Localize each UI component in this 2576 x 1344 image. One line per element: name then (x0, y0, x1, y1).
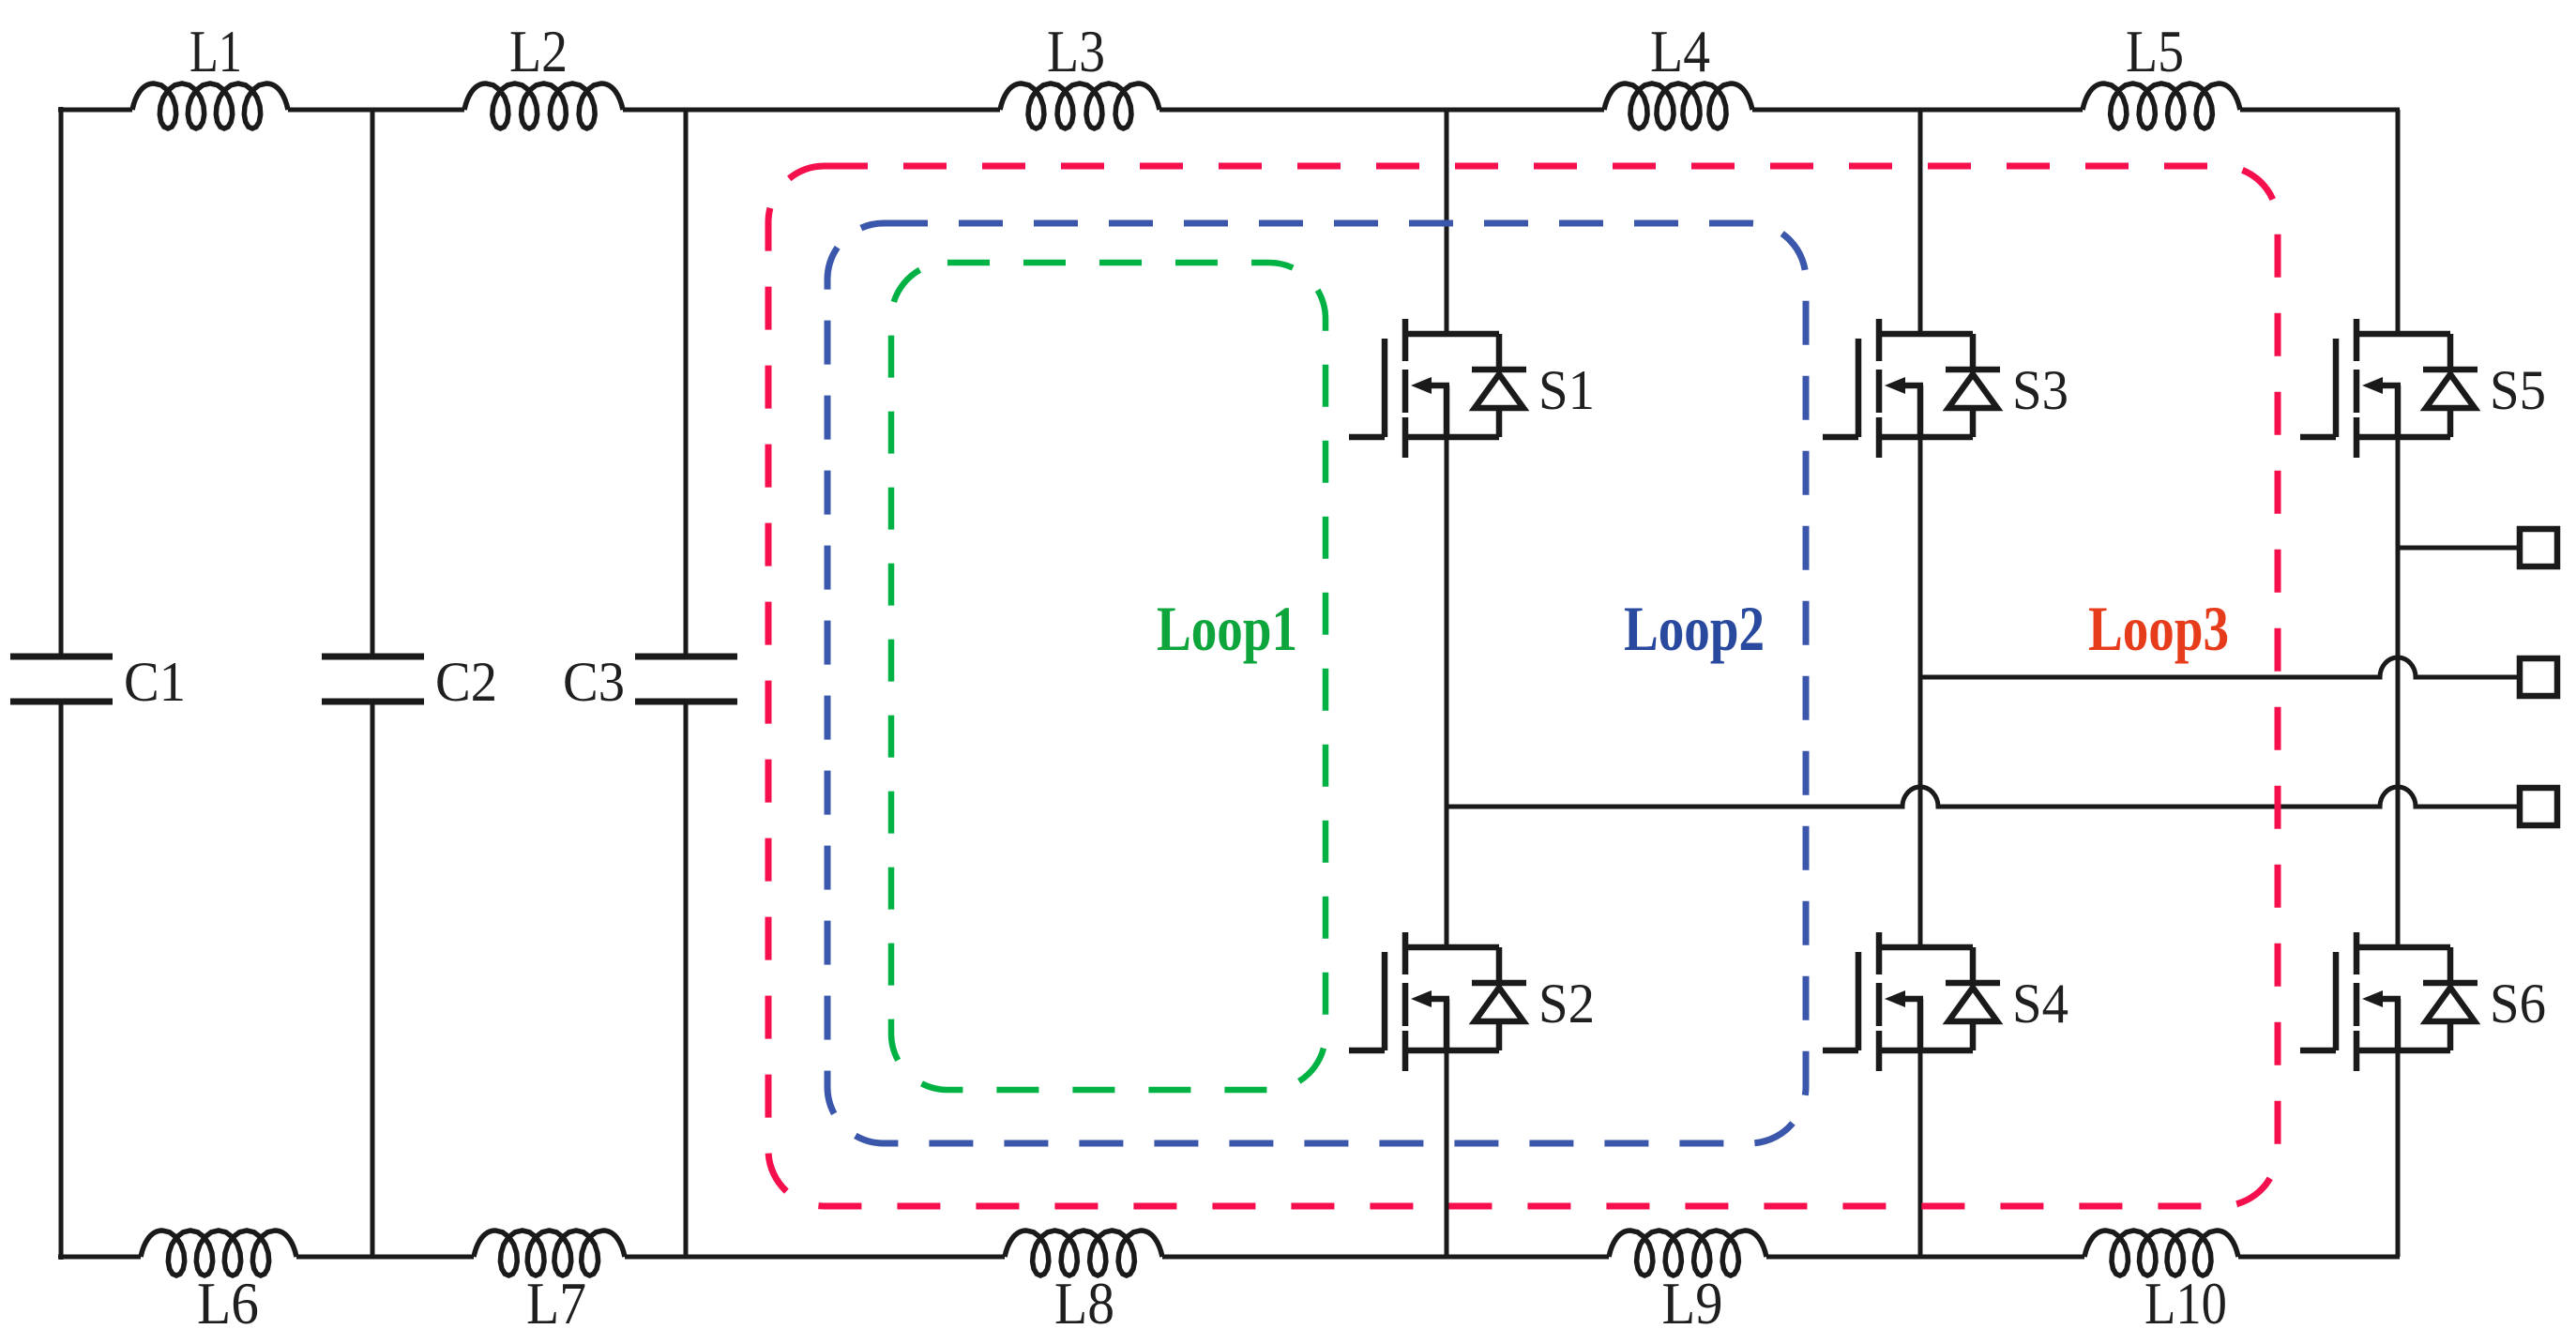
transistor S4 (MOSFET with body diode) (1823, 932, 2000, 1071)
wire leg1 between S1 source and S2 drain (phase node A) (1445, 437, 1449, 947)
inductor L7 coil (474, 1231, 625, 1276)
svg-text:Loop2: Loop2 (1624, 593, 1765, 664)
inductor L6 coil (141, 1231, 296, 1276)
svg-text:L6: L6 (197, 1270, 259, 1336)
svg-text:L4: L4 (1650, 18, 1710, 84)
wire leg1 S2 source to bottom rail (1445, 1050, 1449, 1257)
loop Loop1 dashed boundary (891, 263, 1326, 1090)
inductor L1 coil (132, 83, 288, 128)
capacitor C2 (322, 657, 424, 702)
svg-text:C1: C1 (124, 651, 186, 713)
wire leg1 drain of S1 from top rail (1445, 110, 1449, 331)
wire leg3 drain of S5 from top rail (2396, 110, 2401, 331)
wire C2 branch lower (371, 702, 375, 1257)
wire top rail between L4 and L5 (1752, 108, 2083, 113)
node output terminal 1 (2520, 529, 2557, 566)
wire C2 branch upper (371, 110, 375, 657)
wire phase C output line to terminal 1 (2398, 546, 2518, 551)
wire leg2 between S3 source and S4 drain (phase node B) (1918, 437, 1923, 947)
wire left edge upper (59, 107, 64, 657)
svg-text:S2: S2 (1538, 973, 1595, 1034)
svg-text:L10: L10 (2144, 1270, 2227, 1336)
wire top rail between L2 and L3 (623, 108, 1000, 113)
loop Loop3 dashed boundary (768, 166, 2278, 1206)
svg-text:C2: C2 (435, 651, 497, 713)
svg-text:S5: S5 (2490, 359, 2546, 421)
wire leg2 drain of S3 from top rail (1918, 110, 1923, 331)
inductor L5 coil (2083, 83, 2240, 128)
transistor S6 (MOSFET with body diode) (2300, 932, 2478, 1071)
svg-text:S3: S3 (2012, 359, 2068, 421)
wire top rail left segment (58, 108, 132, 113)
loop Loop2 dashed boundary (827, 223, 1806, 1143)
capacitor C3 (635, 657, 737, 702)
wire top rail between L5 and right corner (2240, 108, 2400, 113)
wire top rail between L1 and L2 (288, 108, 464, 113)
wire C3 branch lower (684, 702, 689, 1257)
svg-text:L3: L3 (1047, 18, 1105, 84)
inductor L10 coil (2084, 1231, 2238, 1276)
inductor L8 coil (1005, 1231, 1162, 1276)
wire bottom rail between L9 and L10 (1766, 1255, 2084, 1260)
svg-text:L8: L8 (1054, 1270, 1114, 1336)
capacitor C1 (10, 657, 113, 702)
inductor L3 coil (1000, 83, 1159, 128)
node output terminal 3 (2520, 788, 2557, 825)
transistor S5 (MOSFET with body diode) (2300, 319, 2478, 458)
wire leg3 between S5 source and S6 drain (phase node C) (2396, 437, 2401, 947)
svg-text:S6: S6 (2490, 973, 2546, 1034)
svg-text:Loop3: Loop3 (2088, 593, 2229, 664)
svg-text:S1: S1 (1538, 359, 1595, 421)
transistor S3 (MOSFET with body diode) (1823, 319, 2000, 458)
inductor L9 coil (1609, 1231, 1766, 1276)
svg-text:L5: L5 (2126, 18, 2184, 84)
node output terminal 2 (2520, 658, 2557, 696)
svg-text:Loop1: Loop1 (1157, 593, 1297, 664)
wire leg2 S4 source to bottom rail (1918, 1050, 1923, 1257)
wire bottom rail left segment (58, 1255, 141, 1260)
wire phase A output line with hops over leg2 and leg3 (1447, 787, 2518, 807)
wire phase B output line with hop over leg3 (1920, 657, 2518, 677)
wire bottom rail between L10 and right corner (2238, 1255, 2400, 1260)
inductor L4 coil (1604, 83, 1752, 128)
svg-text:L7: L7 (526, 1270, 586, 1336)
svg-text:L9: L9 (1662, 1270, 1723, 1336)
wire top rail between L3 and L4 (1159, 108, 1604, 113)
transistor S2 (MOSFET with body diode) (1349, 932, 1526, 1071)
svg-text:C3: C3 (563, 651, 625, 713)
wire left edge lower (59, 702, 64, 1260)
svg-text:L2: L2 (509, 18, 568, 84)
svg-text:S4: S4 (2012, 973, 2068, 1034)
svg-text:L1: L1 (189, 18, 242, 84)
wire C3 branch upper (684, 110, 689, 657)
wire bottom rail between L6 and L7 (296, 1255, 474, 1260)
wire bottom rail between L8 and L9 (1162, 1255, 1609, 1260)
transistor S1 (MOSFET with body diode) (1349, 319, 1526, 458)
wire leg3 S6 source to bottom rail (2396, 1050, 2401, 1257)
wire bottom rail between L7 and L8 (625, 1255, 1005, 1260)
inductor L2 coil (464, 83, 623, 128)
